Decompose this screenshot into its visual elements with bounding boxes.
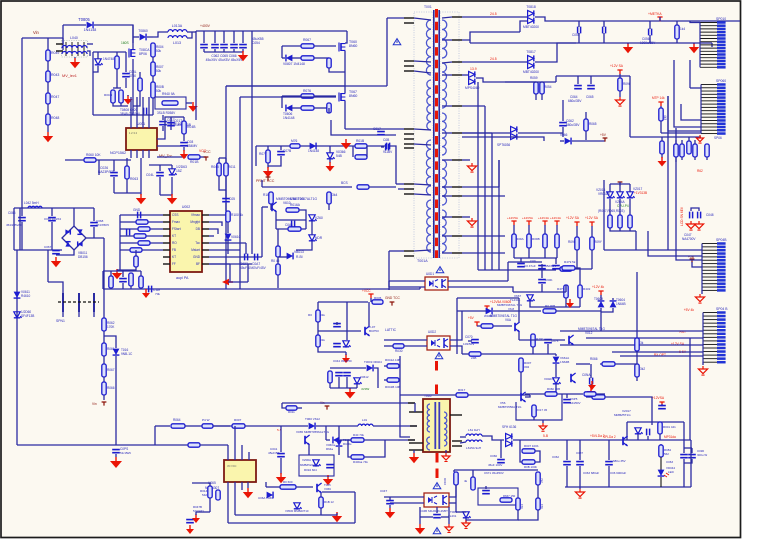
isolation boundary dash segment B [436,453,439,481]
wire [572,140,605,142]
resistor R096 [618,78,622,91]
wire [481,353,521,355]
wire [683,459,685,487]
wire [681,157,683,160]
wire [389,505,391,508]
resistor R479 [562,266,575,270]
capacitor C0x2 [603,27,606,34]
wire [692,262,702,267]
wire main bus PRI [103,288,420,290]
U002 right pin 6 [202,249,209,251]
svg-text:T0818: T0818 [526,5,536,9]
ground [238,51,248,61]
wire [513,291,566,293]
wire opto1 in a [389,280,425,282]
wire [556,225,558,234]
resistor R0c6 [705,144,709,157]
svg-text:C06?: C06? [576,451,583,455]
resistor R011b [286,406,297,410]
wire [328,204,330,210]
capacitor C041 [277,454,285,457]
svg-text:680u 35V: 680u 35V [613,459,626,463]
resistor R059 [534,82,538,94]
connector SP04B pin 5 [702,256,726,259]
wire [541,94,543,100]
svg-text:C60b: C60b [545,278,553,282]
resistor R076a [301,94,314,98]
wire [513,248,515,258]
resistor R030 [393,344,404,348]
resistor R0Bd [522,460,535,464]
ground snubber [323,475,333,485]
svg-text:R067: R067 [303,38,311,42]
snubber box outline [299,455,334,476]
wire [520,372,522,395]
wire [299,210,306,220]
svg-text:R019: R019 [443,478,447,485]
svg-text:452/60V: 452/60V [545,264,557,268]
capacitor C08 [180,143,188,146]
svg-text:1k4: 1k4 [680,27,685,31]
wire [627,43,629,44]
ground big mid [345,388,356,399]
svg-text:BF: BF [196,262,200,266]
svg-text:T001: T001 [424,5,432,9]
svg-text:R04B: R04B [187,125,196,129]
svg-text:SP06: SP06 [714,136,722,140]
svg-text:SF4F13B: SF4F13B [21,314,34,318]
resistor R432 [578,285,582,298]
svg-text:+12V5A: +12V5A [522,216,534,220]
svg-text:C065: C065 [586,95,594,99]
svg-text:R054: R054 [544,85,552,89]
wire [329,159,331,163]
resistor R065 [584,119,588,131]
svg-text:SP060: SP060 [716,79,726,83]
wire [51,222,53,250]
wire [314,45,336,47]
wire harness v4 [498,160,500,270]
resistor R0s [543,309,556,313]
svg-text:GND: GND [133,208,141,212]
bridge diode 3 [65,242,70,247]
connector SP060 pin 2 [701,87,726,90]
wire [441,516,449,518]
connector SP04B bus [701,244,703,291]
wire cap bank x234 [233,31,235,43]
capacitor C0NA [590,378,593,385]
svg-text:R076: R076 [303,89,311,93]
svg-text:R066: R066 [107,386,115,390]
wire [586,396,592,398]
wire [110,271,112,276]
capacitor C60b [538,280,546,283]
svg-text:Mstart: Mstart [191,248,200,252]
transistor pass [623,436,628,446]
wire [693,43,695,44]
wire [596,393,605,395]
relay actuator dashed line [58,301,99,303]
svg-text:+12V SA: +12V SA [566,216,580,220]
optocoupler U0D1 [425,277,448,290]
wire [48,282,63,293]
wire U065 pin b2 [234,482,236,515]
wire [251,252,253,254]
svg-text:562: 562 [664,452,669,456]
wire [575,268,580,285]
resistor R007c [519,358,523,372]
T001 pin stub s6 [452,132,462,134]
wire [532,347,534,354]
wire U001 bottom pin x137 [136,150,138,158]
svg-text:680u/35V: 680u/35V [568,99,582,103]
wire [590,384,592,388]
resistor R100 [226,211,230,222]
resistor R645 [536,472,540,485]
svg-text:C671 45uF50V: C671 45uF50V [484,471,504,475]
svg-text:15C: 15C [540,504,544,509]
wire [565,298,567,307]
T001 pin stub s3 [452,61,462,63]
wire [96,159,131,161]
wire left rail lower [16,250,18,445]
resistor R045 [217,163,221,176]
wire long vertical B [239,97,241,246]
svg-text:BCS: BCS [341,181,349,185]
diode T0606 [286,105,292,112]
wire [270,204,272,210]
svg-text:FB: FB [172,248,176,252]
svg-text:R667 150: R667 150 [503,494,516,498]
resistor R081 [136,220,148,224]
resistor R051 [115,56,119,69]
resistor output bank [512,234,516,248]
capacitor C0560 [222,199,230,202]
resistor R060b [545,392,557,396]
wire [93,312,95,317]
wire [629,199,631,215]
transformer T001 core right [438,10,440,258]
wire [73,208,75,226]
IC U001 NCP1562 [126,128,157,150]
wire [702,362,704,365]
resistor R0c4 [687,141,691,154]
T001 pin stub s5 [452,105,462,107]
svg-text:MMBT0967ALT1G: MMBT0967ALT1G [290,197,317,201]
wire [277,257,279,264]
connector SP04B pin 6 [702,259,726,262]
wire cap drop x609 [608,440,610,460]
resistor R0CBb [357,185,369,189]
svg-text:45uF 100V: 45uF 100V [488,463,502,467]
wire [152,98,154,115]
wire [92,52,94,115]
capacitor C017 [167,123,175,126]
capacitor C60a [538,266,546,269]
wire [420,516,433,518]
capacitor C062 [563,462,571,465]
wire [135,250,137,256]
diode V066 [565,138,571,145]
wire [684,447,692,449]
wire [386,18,388,86]
svg-text:C07B: C07B [283,149,291,153]
wire [154,426,156,445]
wire [261,207,263,257]
capacitor bulk [230,45,238,48]
ground [689,43,699,53]
connector SP040 pin 12 [703,350,726,353]
svg-text:Vfmax: Vfmax [191,213,200,217]
wire [557,393,583,395]
resistor R048 [46,114,50,125]
svg-text:C04L: C04L [146,173,154,177]
wire [348,440,351,457]
svg-text:31k: 31k [320,338,325,342]
wire [140,158,142,195]
ground mesh [332,512,342,522]
connector SP060 pin 13 [701,122,726,125]
connector SP010 pin 9 [700,47,726,50]
svg-text:+12VSA: +12VSA [652,396,665,400]
svg-text:+5V 4k: +5V 4k [684,308,695,312]
connector SP04B pin 3 [702,249,726,252]
svg-text:15Z: 15Z [176,169,182,173]
choke stub [56,43,63,45]
wire [120,235,163,237]
wire [125,78,127,88]
resistor R0q [592,395,605,399]
ground R940 [188,102,198,112]
wire rail x604 [603,180,605,250]
transformer T065 body [423,399,450,452]
resistor R007d [522,449,535,453]
power tick bank [554,221,559,225]
wire [78,312,80,317]
wire harness v3 [491,133,493,270]
svg-text:SP04 B: SP04 B [716,307,728,311]
power tick Vin bottom [102,402,107,406]
diode V0611 [14,292,21,298]
ground [180,150,188,159]
svg-text:LCD SN 6EV: LCD SN 6EV [680,206,684,226]
wire [555,76,557,82]
power tick bank [511,221,516,225]
svg-text:V012: V012 [585,331,593,335]
T001 secondary winding 3 [442,113,446,155]
svg-text:45uF/50: 45uF/50 [268,451,279,455]
svg-text:+5V: +5V [468,316,475,320]
svg-text:GND TCC: GND TCC [385,296,400,300]
svg-text:R064: R064 [173,418,181,422]
T001 pin stub s1 [452,16,462,18]
wire [87,51,90,56]
wire [681,140,683,144]
power tick [659,402,664,406]
ground U065 [243,488,253,498]
wire [462,32,520,40]
resistor R061 [102,343,106,356]
wire [116,69,118,88]
wire [354,492,356,523]
svg-text:RO: RO [172,241,177,245]
connector SP010 pin 8 [700,44,726,47]
wire [114,192,141,194]
zener VZ60 [309,215,317,221]
wire [113,103,128,106]
svg-text:R09B: R09B [532,237,540,241]
U002 right pin 2 [202,221,209,223]
wire [103,270,141,272]
wire [508,261,542,263]
connector SP040 pin 8 [703,336,726,339]
wire [578,21,580,27]
wire [619,230,621,232]
wire cap bank x243 [242,31,244,43]
T001 pin stub p10 [404,147,414,149]
wire [555,258,557,264]
resistor R0c1 [660,141,664,154]
wire [629,184,631,192]
ground open SP04B [695,294,704,303]
wire [120,242,163,244]
wire rail x690 [689,338,691,440]
wire [162,115,164,120]
wire [93,51,126,53]
resistor R1B [319,497,323,508]
wire opto3 in a [384,496,424,498]
svg-text:911BV: 911BV [383,150,393,154]
wire [535,43,576,62]
diode T016 [113,349,120,355]
svg-text:U0D1: U0D1 [426,272,434,276]
net arrow on bus [222,279,233,285]
svg-text:1N4748: 1N4748 [103,57,114,61]
transistor V07c [571,373,576,383]
wire [209,256,262,258]
wire [225,158,227,163]
resistor R0CB [327,58,331,68]
diode T0609b [598,301,605,307]
wire [542,420,544,423]
svg-text:+12V4A: +12V4A [538,216,550,220]
connector SP04B pin 8 [702,266,726,269]
resistor R3k [635,338,639,351]
svg-text:VD VCC: VD VCC [227,465,237,468]
wire harness v2 [484,106,486,270]
capacitor C0mid [433,515,441,518]
wire [103,331,105,343]
choke core line 4 [83,42,85,56]
resistor R019b [454,472,458,485]
dual rectifier SFH [506,433,512,446]
wire [442,216,452,218]
wire branch [104,336,116,348]
wire [605,397,652,425]
wire [453,470,455,472]
svg-text:L040: L040 [70,36,78,40]
wire [566,466,568,487]
svg-text:300u W: 300u W [697,453,707,457]
wire [462,132,492,134]
svg-text:C063 680uF: C063 680uF [583,471,599,475]
svg-text:VZ06A: VZ06A [302,458,311,462]
resistor Rfb1 [481,324,493,328]
power tick Vin mid [325,406,330,410]
wire x400 down [400,356,410,437]
wire [694,157,696,160]
svg-text:V6A: V6A [505,318,512,322]
svg-text:C054: C054 [252,41,260,45]
svg-text:R-BI: R-BI [296,255,303,259]
wire [242,49,244,52]
wire [603,33,605,43]
zener V0530 [294,503,302,509]
wire [442,235,452,237]
T001 pin stub p15 [404,255,414,257]
wire [462,186,499,188]
diode V0807 [286,55,292,62]
svg-text:8P06: 8P06 [139,52,147,56]
wire [530,301,580,307]
wire [119,215,121,270]
power tick bank [526,221,531,225]
svg-text:V0530 MMB23T10: V0530 MMB23T10 [285,509,309,513]
wire [608,466,610,487]
resistor R0v45 [276,246,280,257]
wire [519,440,521,451]
wire [133,91,140,106]
connector SP04B pin 7 [702,262,726,265]
wire [690,87,701,89]
wire [676,39,678,43]
resistor R016A [286,208,299,212]
connector SP060 pin 3 [701,90,726,93]
svg-text:R011: R011 [288,410,295,414]
wire [389,497,391,500]
resistor R007b [232,424,245,428]
wire [619,199,621,215]
wire [281,96,283,108]
wire [659,17,661,21]
wire [209,229,218,234]
resistor R014 [208,486,212,498]
wire U065 pin t1 [227,445,229,460]
wire [86,237,104,239]
connector SP04B pin 12 [702,279,726,282]
wire [330,387,357,389]
transistor V066t [317,483,322,493]
wire [226,85,387,87]
wire [691,208,699,211]
wire [281,46,283,58]
resistor R067b [102,364,106,377]
wire [93,66,98,72]
ground small L [192,514,200,523]
wire bus y250 [604,249,702,251]
inductor L013A [168,30,187,32]
resistor R4k3 [659,108,663,121]
wire [601,308,613,312]
wire [47,104,49,114]
svg-text:R0: R0 [308,313,312,317]
resistor R063a [301,106,314,110]
wire [276,228,306,230]
wire [442,159,452,161]
wire [413,450,415,453]
svg-text:V0610: V0610 [231,235,241,239]
wire [449,502,456,504]
